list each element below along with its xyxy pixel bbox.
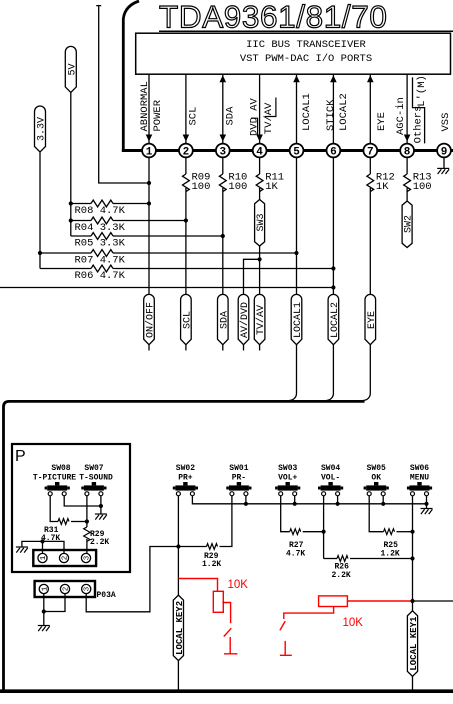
wire SW07R to ground <box>100 496 102 514</box>
ground P03A <box>38 626 50 632</box>
wire ground link pins 1,2 <box>22 541 64 553</box>
pin 6 arrow up <box>330 75 337 82</box>
svg-text:T-SOUND: T-SOUND <box>79 474 113 483</box>
svg-text:PR+: PR+ <box>178 474 193 483</box>
bracket Others L(M) <box>413 77 425 143</box>
wire pin 4 lead <box>259 75 261 144</box>
svg-text:R04 3.3K: R04 3.3K <box>75 222 126 234</box>
wire P03A pins 1,2 tie <box>44 594 65 612</box>
net flag LOCAL KEY1 <box>407 611 417 677</box>
bracket AV <box>265 98 276 117</box>
svg-text:LOCAL1: LOCAL1 <box>293 302 304 338</box>
pin 3 arrow up <box>220 75 227 82</box>
node key1/red <box>410 599 414 603</box>
svg-text:P: P <box>15 448 26 465</box>
wire pin 7 lead <box>369 75 371 144</box>
svg-text:VOL-: VOL- <box>321 474 340 483</box>
svg-text:3.3V: 3.3V <box>37 117 48 141</box>
resistor R31 4.7K <box>58 519 69 525</box>
pin 2 arrow down <box>183 135 190 142</box>
node pin4 branch <box>258 257 262 261</box>
svg-text:LOCAL KEY2: LOCAL KEY2 <box>175 601 185 655</box>
power flag 5V <box>65 46 76 92</box>
wire pin 1 lead <box>148 75 150 144</box>
node R04/5V <box>69 218 73 222</box>
node key2 <box>176 544 180 548</box>
resistor R11 1K <box>259 157 261 174</box>
wire SW02L column LOCAL KEY2 <box>177 496 179 690</box>
pin 4 arrow down <box>256 135 263 142</box>
wire SW08 right to SW07 right <box>64 496 101 506</box>
wire pin bus thick line <box>122 149 453 152</box>
ground SW07 <box>95 514 107 520</box>
resistor R06 4.7K <box>40 268 91 270</box>
pin 3 <box>216 144 230 158</box>
resistor R05 3.3K <box>71 235 91 237</box>
IC function box <box>136 33 451 74</box>
svg-text:SW04: SW04 <box>321 464 340 473</box>
resistor R27 4.7K <box>281 496 290 532</box>
svg-text:AV/DVD: AV/DVD <box>239 302 251 338</box>
resistor R25 1.2K <box>369 496 383 532</box>
svg-text:PR-: PR- <box>232 474 246 483</box>
node R08/5V <box>69 201 73 205</box>
svg-text:ON/OFF: ON/OFF <box>145 302 157 338</box>
net flag ON/OFF <box>144 294 155 344</box>
svg-text:3: 3 <box>84 586 92 591</box>
svg-text:3: 3 <box>84 555 92 560</box>
svg-text:LOCAL2: LOCAL2 <box>330 302 341 338</box>
svg-text:10K: 10K <box>343 617 364 629</box>
pin 2 <box>179 144 193 158</box>
svg-text:SW05: SW05 <box>367 464 386 473</box>
resistor R08 4.7K <box>71 203 91 205</box>
resistor R09 100 <box>185 157 187 174</box>
pin 3 arrow down <box>220 135 227 142</box>
node R31/SW07L <box>85 519 89 523</box>
wire terminal drop x=337.6 <box>337 496 339 504</box>
net flag SDA <box>218 294 229 344</box>
wire pin 2 lead <box>185 75 187 144</box>
svg-text:SCL: SCL <box>183 311 194 329</box>
pin 1 <box>142 144 156 158</box>
svg-text:9: 9 <box>441 146 448 158</box>
node R04/pin2 <box>184 218 188 222</box>
resistor R07 4.7K <box>40 252 91 254</box>
net flag SW2 <box>402 201 412 248</box>
svg-text:LOCAL1: LOCAL1 <box>301 93 313 131</box>
wire pin 6 lead <box>332 75 334 144</box>
node R07/pin5 <box>294 251 298 255</box>
resistor R29 2.2K vertical <box>86 496 88 527</box>
svg-text:SW06: SW06 <box>410 464 429 473</box>
svg-text:1K: 1K <box>376 181 389 193</box>
ground pin 9 VSS <box>437 168 449 174</box>
svg-text:SW2: SW2 <box>404 215 415 233</box>
P keyboard box <box>12 444 130 572</box>
svg-text:3: 3 <box>219 146 226 158</box>
switch red right <box>280 621 285 630</box>
svg-text:Others: Others <box>413 106 425 144</box>
resistor R26 2.2K <box>337 556 348 562</box>
svg-text:SW02: SW02 <box>176 464 195 473</box>
svg-text:5V: 5V <box>67 63 78 75</box>
svg-text:1.2K: 1.2K <box>202 560 221 569</box>
svg-text:SW01: SW01 <box>229 464 248 473</box>
svg-text:2: 2 <box>63 587 71 592</box>
net flag SCL <box>181 294 192 344</box>
wire key1 to right edge <box>413 600 453 602</box>
pin 4 <box>253 144 267 158</box>
svg-text:5: 5 <box>293 146 300 158</box>
svg-text:SDA: SDA <box>219 311 230 329</box>
node SW07R <box>99 504 103 508</box>
bottom box bottom border <box>0 689 453 693</box>
svg-text:SW03: SW03 <box>278 464 297 473</box>
svg-text:R07 4.7K: R07 4.7K <box>75 255 126 267</box>
pin 8 <box>400 144 414 158</box>
IC U1 TDA9361/81/70 outline <box>123 1 139 149</box>
svg-text:SW07: SW07 <box>84 464 103 473</box>
wire thick key bus <box>4 401 365 690</box>
pin 7 arrow up <box>367 75 374 82</box>
pin 5 arrow up <box>293 75 300 82</box>
bracket DVD <box>251 118 258 136</box>
wire key line merge x=296.5 <box>290 351 297 401</box>
wire P03A pin1 to ground <box>43 612 45 626</box>
wire terminal drop x=383.2 <box>382 496 384 504</box>
svg-text:R05 3.3K: R05 3.3K <box>75 238 126 250</box>
net flag LOCAL1 <box>291 294 302 344</box>
svg-text:TV/AV: TV/AV <box>255 305 267 335</box>
svg-text:1: 1 <box>41 586 49 591</box>
svg-text:1: 1 <box>146 146 153 158</box>
title underline <box>159 30 453 32</box>
node R05/pin3 <box>221 234 225 238</box>
net flag SW3 <box>255 200 265 247</box>
wire SW06R to ground <box>426 496 428 508</box>
svg-text:SDA: SDA <box>224 106 236 126</box>
node R08/pin1 <box>147 201 151 205</box>
pin 8 arrow down <box>404 135 411 142</box>
svg-text:R08 4.7K: R08 4.7K <box>75 205 126 217</box>
connector P03A <box>35 581 95 597</box>
resistor R10 100 <box>222 157 224 174</box>
svg-text:AGC-in: AGC-in <box>395 97 407 135</box>
svg-text:ABNORMAL: ABNORMAL <box>139 81 151 131</box>
net flag TV/AV <box>254 294 265 344</box>
svg-text:P03A: P03A <box>97 591 116 600</box>
svg-text:4: 4 <box>256 146 263 158</box>
pin 1 arrow down <box>146 135 153 142</box>
svg-text:IIC BUS TRANSCEIVER: IIC BUS TRANSCEIVER <box>246 39 366 51</box>
svg-text:2.2K: 2.2K <box>332 571 351 580</box>
wire SW04L column <box>323 496 325 559</box>
wire top-left vertical with tick <box>96 6 149 183</box>
svg-text:OK: OK <box>371 474 381 483</box>
node junction pin1 column <box>147 181 151 185</box>
svg-text:TV/AV: TV/AV <box>263 102 275 134</box>
wire pin1 column <box>148 157 150 294</box>
wire SW3 to pills <box>244 246 260 294</box>
wire long rail from left edge <box>0 287 333 289</box>
svg-text:EYE: EYE <box>376 112 388 131</box>
node R25/SW06L <box>410 530 414 534</box>
connector P (3 pins) <box>33 550 96 566</box>
svg-text:R06 4.7K: R06 4.7K <box>75 270 126 282</box>
wire SW06L column LOCAL KEY1 <box>412 496 414 690</box>
svg-text:L'(M): L'(M) <box>416 75 428 107</box>
svg-text:2: 2 <box>183 146 190 158</box>
ground SW06 <box>421 509 433 515</box>
wire terminal drop x=245.9 <box>245 496 247 504</box>
net flag LOCAL KEY2 <box>173 595 183 661</box>
pin 9 <box>437 144 451 158</box>
svg-text:POWER: POWER <box>152 99 164 131</box>
node R27/SW04L <box>322 530 326 534</box>
wire 5V rail <box>70 92 72 236</box>
svg-text:2.2K: 2.2K <box>90 538 109 547</box>
node R07/3.3V <box>38 251 42 255</box>
resistor R29 1.2K <box>178 546 206 548</box>
wire pin 5 lead <box>296 75 298 144</box>
node R26/key1 <box>410 556 414 560</box>
wire pin 8 lead <box>406 75 408 144</box>
svg-text:1: 1 <box>40 555 48 560</box>
node P03A pin1 <box>42 609 46 613</box>
svg-text:VST PWM-DAC I/O PORTS: VST PWM-DAC I/O PORTS <box>240 53 372 65</box>
resistor R12 1K <box>369 157 371 174</box>
svg-text:100: 100 <box>192 181 211 193</box>
svg-text:1.2K: 1.2K <box>381 550 400 559</box>
resistor red 10K right <box>319 596 348 607</box>
node R06/pin6 <box>331 266 335 270</box>
node SW06R <box>424 502 428 506</box>
svg-text:2: 2 <box>62 556 70 561</box>
svg-text:T-PICTURE: T-PICTURE <box>33 474 76 483</box>
pin 7 <box>363 144 377 158</box>
svg-text:LOCAL2: LOCAL2 <box>338 93 350 131</box>
svg-text:VSS: VSS <box>440 113 452 132</box>
node conn pin1 <box>40 539 44 543</box>
svg-text:DVD AV: DVD AV <box>248 97 260 136</box>
svg-text:100: 100 <box>413 181 432 193</box>
svg-text:100: 100 <box>228 181 247 193</box>
pin 5 <box>290 144 304 158</box>
wire pin6 column <box>332 157 334 294</box>
net flag AV/DVD <box>238 294 249 344</box>
resistor red 10K left <box>178 579 217 592</box>
svg-text:LOCAL KEY1: LOCAL KEY1 <box>409 616 419 671</box>
net flag EYE <box>365 294 376 344</box>
svg-text:STICK: STICK <box>325 99 337 131</box>
wire pin 3 lead <box>222 75 224 144</box>
svg-text:1K: 1K <box>265 181 278 193</box>
svg-text:TDA9361/81/70: TDA9361/81/70 <box>159 0 387 35</box>
wire terminal drop x=294.7 <box>294 496 296 504</box>
wire key line merge x=333.4 <box>326 351 333 401</box>
switch red left <box>224 628 232 636</box>
wire switch ground bus <box>192 496 426 504</box>
svg-text:7: 7 <box>367 146 374 158</box>
svg-text:VOL+: VOL+ <box>278 474 297 483</box>
svg-text:6: 6 <box>330 146 337 158</box>
svg-text:MENU: MENU <box>410 474 429 483</box>
net flag LOCAL2 <box>328 294 339 344</box>
svg-text:SCL: SCL <box>188 107 200 126</box>
power flag 3.3V <box>35 106 46 152</box>
wire key line merge x=370.3 <box>363 351 370 401</box>
resistor R04 3.3K <box>71 220 91 222</box>
node rail/pin6 <box>331 285 335 289</box>
svg-text:10K: 10K <box>228 579 249 591</box>
wire 3.3V rail <box>39 152 41 269</box>
svg-text:EYE: EYE <box>367 311 378 329</box>
svg-text:SW3: SW3 <box>256 213 267 231</box>
resistor R13 100 <box>406 157 408 174</box>
wire SW08 left to R31 <box>50 496 58 522</box>
svg-text:SW08: SW08 <box>51 464 70 473</box>
svg-text:8: 8 <box>404 146 411 158</box>
svg-text:4.7K: 4.7K <box>286 550 305 559</box>
wire pin 9 to ground <box>443 157 445 168</box>
ground P box <box>16 547 28 553</box>
wire P03A pin3 to key node <box>86 547 178 612</box>
pin 6 <box>327 144 341 158</box>
wire pin5 column <box>296 157 298 294</box>
